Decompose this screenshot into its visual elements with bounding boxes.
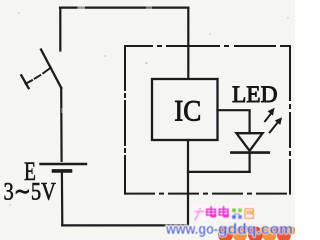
wire LED cathode down [249, 154, 251, 172]
wire top horizontal [60, 6, 188, 8]
wire IC right to LED anode [218, 110, 250, 132]
LED light arrow 2 [270, 118, 281, 132]
wire battery to bottom corner [61, 173, 64, 226]
watermark char 2 (magenta glyph) [207, 207, 216, 217]
svg-text:gddq.com: gddq.com [218, 221, 293, 238]
switch S actuator link (solid branch) [43, 68, 51, 74]
svg-text:www.go-: www.go- [165, 221, 218, 238]
scan artifacts: faded wire spots [78, 6, 86, 10]
battery E negative plate (short thick) [54, 169, 71, 173]
switch S button cap crossbar [21, 75, 28, 88]
watermark white backing [191, 205, 257, 222]
svg-text:IC: IC [174, 94, 201, 127]
dashed enclosure left edge [124, 46, 126, 194]
watermark mascot figures [218, 226, 296, 240]
wire switch to battery [60, 88, 63, 161]
LED cathode bar [231, 151, 268, 154]
switch S blade [41, 50, 61, 88]
wire left upper (to switch fixed contact) [59, 8, 61, 51]
svg-text:3∼5V: 3∼5V [4, 179, 57, 206]
IC U1 box [152, 79, 218, 140]
scan artifacts: speckles [146, 62, 148, 64]
dashed enclosure top edge [125, 45, 290, 47]
wire right trunk upper (top wire to IC top) [187, 8, 189, 79]
svg-text:LED: LED [232, 82, 278, 107]
wire right trunk lower (IC bottom to bottom wire) [187, 140, 189, 225]
watermark char 1 (pink glyph) [195, 209, 204, 220]
LED light arrow 1 [265, 109, 274, 121]
LED triangle [236, 133, 262, 151]
dashed enclosure right edge [289, 46, 291, 194]
dashed enclosure bottom edge [125, 193, 290, 195]
switch S actuator link dash [35, 75, 41, 78]
watermark char 4 (green/blue glyph) [231, 208, 243, 220]
switch S handle [26, 80, 32, 84]
watermark char 3 (magenta glyph) [219, 207, 228, 217]
wire LED return to trunk [188, 171, 250, 173]
watermark char 5 (orange glyph) [245, 209, 254, 219]
battery E positive plate (long) [41, 163, 87, 165]
wire bottom horizontal [62, 224, 188, 226]
